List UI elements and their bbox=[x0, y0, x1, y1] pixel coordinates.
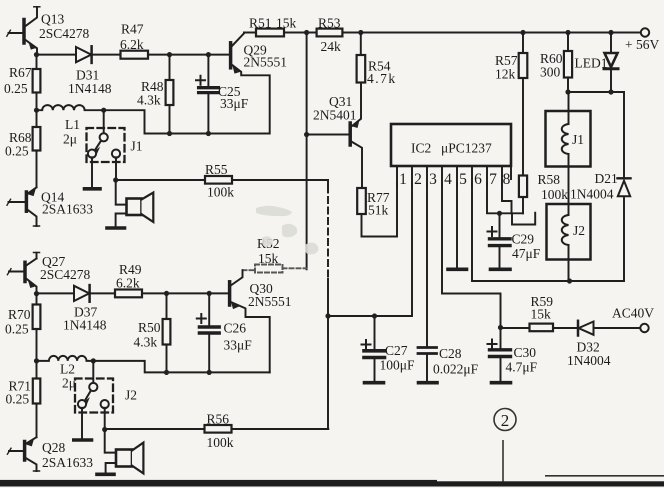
svg-text:15k: 15k bbox=[276, 16, 297, 31]
relay coil J1 bbox=[546, 92, 591, 204]
svg-text:4: 4 bbox=[444, 171, 452, 188]
inductor L2 bbox=[37, 356, 94, 361]
node Q27 emitter junction bbox=[34, 291, 39, 296]
wire J2 left contact to ground bbox=[81, 408, 83, 438]
node L1 right junction bbox=[101, 108, 106, 113]
svg-text:0.25: 0.25 bbox=[5, 144, 29, 159]
capacitor C30 bbox=[488, 328, 511, 381]
LED LED1 bbox=[604, 33, 618, 93]
wire pin7 to C29 node bbox=[487, 184, 500, 214]
watermark smudges bbox=[256, 206, 318, 255]
svg-text:6: 6 bbox=[474, 171, 482, 188]
svg-text:C27: C27 bbox=[385, 343, 408, 358]
svg-text:8: 8 bbox=[503, 171, 511, 188]
node L2 left junction bbox=[34, 358, 39, 363]
svg-text:R67: R67 bbox=[9, 65, 32, 80]
wire Q27 node to D37 bbox=[37, 292, 75, 294]
svg-text:12k: 12k bbox=[495, 67, 516, 82]
svg-text:+ 56V: + 56V bbox=[625, 37, 659, 52]
transistor Q28 bbox=[7, 437, 39, 471]
resistor R48 bbox=[166, 55, 174, 134]
resistor R57 bbox=[519, 33, 528, 176]
svg-text:6.2k: 6.2k bbox=[120, 37, 144, 52]
svg-text:2: 2 bbox=[501, 411, 510, 430]
svg-text:15k: 15k bbox=[258, 251, 279, 266]
relay contact J1 (dashed box) bbox=[87, 128, 125, 162]
wire R71 to Q28 bbox=[36, 404, 38, 438]
node speaker2 junction bbox=[102, 427, 107, 432]
svg-text:C29: C29 bbox=[512, 232, 535, 247]
svg-text:1N4148: 1N4148 bbox=[68, 81, 112, 96]
svg-text:100μF: 100μF bbox=[380, 358, 415, 373]
wire speaker1 top lead bbox=[116, 180, 127, 205]
AC40V terminal bbox=[640, 324, 648, 332]
svg-text:47μF: 47μF bbox=[512, 246, 541, 261]
resistor R49 bbox=[115, 290, 142, 298]
wire channel1 emitter bus y=133.5 bbox=[104, 110, 269, 133]
svg-text:R51: R51 bbox=[249, 16, 272, 31]
svg-text:2N5551: 2N5551 bbox=[244, 55, 288, 70]
wire R77 to IC pin1 bbox=[362, 184, 398, 237]
inductor L1 bbox=[37, 105, 104, 110]
resistor R70 bbox=[33, 305, 41, 330]
J2 contact circles and arm bbox=[78, 383, 109, 408]
svg-text:33μF: 33μF bbox=[224, 338, 253, 353]
node link to pin2 net bbox=[325, 313, 330, 318]
node R50 top bbox=[164, 291, 169, 296]
svg-text:1N4004: 1N4004 bbox=[570, 187, 614, 202]
wire pin6 to relay/D21 rail bbox=[472, 184, 624, 282]
node Q31 base tap bbox=[304, 132, 309, 137]
resistor R60 bbox=[564, 33, 572, 93]
svg-text:0.022μF: 0.022μF bbox=[433, 362, 479, 377]
diode D32 bbox=[578, 321, 594, 336]
resistor R77 bbox=[357, 188, 366, 214]
svg-text:R50: R50 bbox=[138, 320, 161, 335]
wire J1 left contact to ground bbox=[91, 157, 93, 187]
ground C30 bbox=[492, 381, 511, 385]
wire D37 to Q30 base bbox=[89, 292, 228, 294]
wire J1 right contact down bbox=[115, 157, 117, 180]
wire R68 to Q14 emitter bbox=[36, 151, 38, 188]
svg-text:L1: L1 bbox=[65, 117, 80, 132]
wire pin3 to C28 bbox=[426, 184, 428, 346]
node R48 bottom bbox=[167, 131, 172, 136]
svg-text:μPC1237: μPC1237 bbox=[441, 141, 492, 156]
svg-text:15k: 15k bbox=[531, 307, 552, 322]
resistor R67 bbox=[33, 69, 41, 93]
wire Q13 emitter node to D31 bbox=[37, 54, 76, 56]
resistor R50 bbox=[163, 293, 171, 372]
svg-text:J2: J2 bbox=[125, 388, 137, 403]
svg-text:5: 5 bbox=[459, 171, 467, 188]
IC2 pin ticks bbox=[397, 166, 511, 186]
svg-text:IC2: IC2 bbox=[411, 141, 431, 156]
relay coil J2 bbox=[547, 204, 591, 281]
transistor Q13 bbox=[7, 7, 40, 55]
svg-text:R58: R58 bbox=[538, 172, 561, 187]
wire pin5 to ground bbox=[456, 184, 458, 268]
node R59/C30 junction bbox=[498, 325, 503, 330]
node junction dots on top rail bbox=[304, 30, 614, 35]
wire J2 right contact down bbox=[104, 408, 106, 430]
node speaker1 junction bbox=[113, 177, 118, 182]
wire R51/R53 junction down to R52 bbox=[306, 33, 308, 270]
wire R60/LED junction link bbox=[568, 91, 624, 93]
resistor R54 bbox=[357, 33, 366, 83]
wire L1 junction to R68 bbox=[36, 110, 38, 127]
wire D32 to AC40V terminal bbox=[594, 327, 641, 329]
svg-text:2N5401: 2N5401 bbox=[313, 108, 357, 123]
svg-text:Q13: Q13 bbox=[41, 12, 64, 27]
svg-text:24k: 24k bbox=[321, 39, 342, 54]
svg-text:6.2k: 6.2k bbox=[116, 276, 140, 291]
resistor R56 bbox=[205, 425, 232, 433]
resistor R55 bbox=[205, 176, 232, 184]
svg-text:J1: J1 bbox=[572, 132, 584, 147]
node C25 bottom bbox=[206, 131, 211, 136]
svg-text:2SC4278: 2SC4278 bbox=[40, 267, 91, 282]
relay contact J2 (dashed box) bbox=[75, 379, 113, 413]
svg-text:2μ: 2μ bbox=[62, 376, 76, 391]
node R50 bottom bbox=[164, 370, 169, 375]
wire speaker1 sense line with R55 bbox=[116, 179, 328, 181]
svg-text:Q28: Q28 bbox=[42, 440, 65, 455]
svg-text:2N5551: 2N5551 bbox=[248, 294, 292, 309]
svg-text:4.3k: 4.3k bbox=[137, 93, 161, 108]
wire L2 junction to J2 contact bbox=[92, 361, 94, 384]
node L2 right junction bbox=[91, 358, 96, 363]
resistor R68 bbox=[33, 127, 41, 151]
+56V terminal bbox=[641, 28, 649, 36]
transistor Q29 bbox=[231, 33, 270, 134]
svg-text:R53: R53 bbox=[318, 16, 341, 31]
svg-text:D21: D21 bbox=[595, 171, 618, 186]
node R60 bottom bbox=[565, 89, 570, 94]
resistor R51 bbox=[256, 29, 284, 37]
svg-text:1N4148: 1N4148 bbox=[63, 318, 107, 333]
wire +56V top rail bbox=[244, 32, 641, 34]
wire R70 bottom to L2 junction bbox=[36, 329, 38, 361]
wire pin8 jog stub bbox=[512, 213, 535, 225]
node Q13 emitter junction bbox=[34, 52, 39, 57]
svg-text:R55: R55 bbox=[205, 162, 228, 177]
wire R55/R56 vertical link bbox=[327, 180, 329, 187]
transistor Q30 bbox=[230, 270, 270, 372]
node R48 top junction bbox=[167, 52, 172, 57]
diode D21 bbox=[618, 92, 631, 281]
transistor Q31 bbox=[307, 83, 362, 189]
diode D37 bbox=[74, 285, 90, 302]
svg-text:2SA1633: 2SA1633 bbox=[42, 202, 93, 217]
resistor R58 bbox=[519, 176, 527, 214]
node L1 left junction bbox=[34, 108, 39, 113]
svg-text:33μF: 33μF bbox=[220, 96, 249, 111]
resistor R52 (dashed) bbox=[243, 265, 307, 273]
capacitor C25 bbox=[196, 55, 218, 134]
svg-text:C28: C28 bbox=[439, 346, 462, 361]
capacitor C29 bbox=[488, 213, 511, 267]
IC2 pin numbers bbox=[399, 171, 511, 188]
figure number 2 (circled) bbox=[494, 409, 516, 431]
svg-text:L2: L2 bbox=[60, 362, 75, 377]
svg-text:1N4004: 1N4004 bbox=[567, 353, 611, 368]
transistor Q27 bbox=[7, 253, 39, 294]
capacitor C27 bbox=[362, 316, 385, 381]
svg-text:J2: J2 bbox=[573, 223, 585, 238]
node C25 top junction bbox=[206, 52, 211, 57]
wire pin2 net horizontal bbox=[328, 184, 412, 317]
svg-text:2: 2 bbox=[414, 171, 422, 188]
svg-text:100k: 100k bbox=[207, 435, 234, 450]
svg-text:51k: 51k bbox=[368, 203, 389, 218]
node C26 top bbox=[207, 291, 212, 296]
wire speaker2 sense line with R56 bbox=[105, 428, 329, 430]
svg-text:R70: R70 bbox=[8, 307, 31, 322]
svg-text:AC40V: AC40V bbox=[612, 306, 654, 321]
speaker SP1 bbox=[116, 193, 154, 227]
wire speaker2 top lead bbox=[105, 430, 116, 453]
ground speaker2 bbox=[97, 472, 114, 476]
wire left rail R67/R68 bbox=[36, 55, 38, 69]
node C27 top bbox=[372, 313, 377, 318]
bottom border band bbox=[0, 481, 664, 486]
capacitor C26 bbox=[197, 293, 219, 372]
svg-text:100k: 100k bbox=[541, 187, 568, 202]
svg-text:3: 3 bbox=[429, 171, 437, 188]
resistor R47 bbox=[121, 51, 149, 59]
svg-text:1: 1 bbox=[399, 171, 407, 188]
svg-text:C30: C30 bbox=[514, 345, 537, 360]
svg-text:4.7μF: 4.7μF bbox=[506, 360, 538, 375]
node C26 bottom bbox=[207, 370, 212, 375]
diode D31 bbox=[76, 46, 92, 63]
svg-text:0.25: 0.25 bbox=[6, 392, 30, 407]
speaker SP2 bbox=[106, 443, 144, 474]
resistor R59 and diode D32 row bbox=[501, 327, 579, 329]
ground pin5 bbox=[448, 267, 467, 271]
wire pin8 drop bbox=[502, 184, 512, 214]
svg-text:0.25: 0.25 bbox=[4, 81, 28, 96]
wire figure divider vertical bbox=[502, 440, 504, 482]
svg-text:LED1: LED1 bbox=[575, 56, 608, 71]
wire D31 to Q29 base bbox=[91, 54, 229, 56]
resistor R71 bbox=[33, 379, 41, 404]
svg-text:300: 300 bbox=[540, 65, 561, 80]
node J2 coil bottom junction bbox=[567, 278, 572, 283]
svg-text:4.7k: 4.7k bbox=[367, 71, 397, 86]
ground C28 bbox=[419, 381, 438, 385]
wire right divider horizontal bbox=[545, 475, 664, 477]
svg-text:2SA1633: 2SA1633 bbox=[42, 455, 93, 470]
wire L1 junction to J1 contact bbox=[103, 110, 105, 133]
resistor R53 bbox=[317, 29, 343, 37]
wire left rail R70/R71 bbox=[36, 294, 38, 305]
ground J2 contact bbox=[74, 438, 92, 442]
svg-text:100k: 100k bbox=[207, 185, 234, 200]
transistor Q14 bbox=[7, 187, 40, 226]
ground C27 bbox=[365, 381, 384, 385]
wire R67 bottom to L1 junction bbox=[36, 93, 38, 111]
J1 contact circles and arm bbox=[88, 133, 120, 158]
wire channel2 emitter bus y=372.4 bbox=[93, 361, 269, 373]
svg-text:2SC4278: 2SC4278 bbox=[39, 26, 90, 41]
wire C29 node to R58 bbox=[500, 212, 524, 214]
ground C29 bbox=[491, 267, 511, 271]
svg-text:0.25: 0.25 bbox=[5, 322, 29, 337]
svg-text:4.3k: 4.3k bbox=[134, 335, 158, 350]
svg-text:J1: J1 bbox=[131, 139, 143, 154]
IC op U IC2 box bbox=[391, 124, 511, 166]
wire L2 junction to R71 bbox=[36, 361, 38, 379]
capacitor C28 bbox=[418, 348, 437, 381]
svg-text:R47: R47 bbox=[121, 22, 144, 37]
svg-text:R56: R56 bbox=[207, 412, 230, 427]
ground speaker1 bbox=[107, 226, 125, 230]
svg-text:2μ: 2μ bbox=[63, 132, 77, 147]
node C29/R58 junction bbox=[497, 211, 502, 216]
node LED cathode bbox=[608, 89, 613, 94]
svg-text:C26: C26 bbox=[224, 321, 247, 336]
resistor R59 bbox=[530, 324, 554, 332]
svg-text:7: 7 bbox=[489, 171, 497, 188]
ground J1 contact bbox=[85, 187, 101, 191]
wire pin4 to R59/C30 junction bbox=[442, 184, 501, 328]
